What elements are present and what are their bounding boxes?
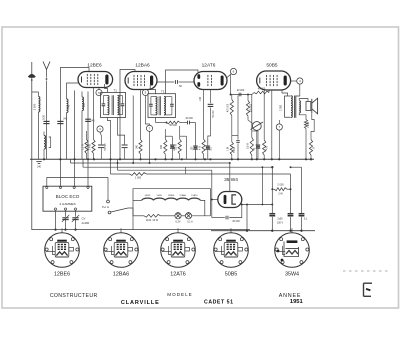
wire 35W4 out bbox=[241, 204, 273, 206]
wire bus4 bbox=[118, 159, 212, 170]
pin 50B5 4 bbox=[291, 78, 303, 96]
resistor R4b bbox=[198, 139, 205, 159]
svg-text:2 W: 2 W bbox=[278, 193, 283, 196]
speaker LS1 bbox=[306, 98, 318, 114]
capacitor C5 AVC bbox=[180, 117, 196, 125]
capacitor C6 bbox=[170, 136, 176, 159]
svg-text:1,2 M: 1,2 M bbox=[81, 144, 84, 150]
svg-text:743: 743 bbox=[67, 104, 71, 109]
wire S1 right bbox=[128, 208, 133, 216]
tube 12AT6 bbox=[194, 63, 227, 90]
wire drop 247 bbox=[246, 205, 248, 231]
capacitor C4 bbox=[98, 133, 107, 160]
socket 12BA6 bbox=[104, 228, 139, 277]
resistor R9 bbox=[309, 113, 315, 160]
capacitor C7 coupling bbox=[157, 80, 194, 88]
svg-text:2 000: 2 000 bbox=[279, 104, 282, 111]
svg-text:4 GAMMES: 4 GAMMES bbox=[59, 202, 75, 206]
svg-text:300: 300 bbox=[160, 144, 163, 149]
svg-text:2 000: 2 000 bbox=[277, 184, 284, 187]
wire T2 to 12AT6 top bbox=[166, 70, 199, 94]
wire bus2 bbox=[71, 159, 230, 163]
wire heater drop bbox=[132, 216, 134, 230]
wire bus3 jog bbox=[185, 167, 187, 174]
svg-text:35W4: 35W4 bbox=[145, 195, 151, 197]
svg-text:0,1 A: 0,1 A bbox=[187, 221, 193, 224]
svg-text:12BA6: 12BA6 bbox=[113, 272, 129, 278]
svg-text:470 000: 470 000 bbox=[228, 103, 230, 112]
svg-text:CONSTRUCTEUR: CONSTRUCTEUR bbox=[50, 293, 98, 299]
socket 12AT6 bbox=[161, 228, 196, 277]
wire AVC down bbox=[192, 123, 198, 160]
capacitor C4b bbox=[122, 145, 128, 159]
capacitor C13 bbox=[288, 214, 294, 231]
heater chain bbox=[133, 198, 205, 216]
variable capacitor CV2 bbox=[72, 210, 90, 231]
svg-text:50B5: 50B5 bbox=[225, 272, 238, 278]
svg-text:2x490: 2x490 bbox=[82, 221, 90, 225]
svg-text:12BA6: 12BA6 bbox=[179, 194, 186, 197]
wire 50B5 g1 bbox=[251, 95, 253, 138]
svg-text:50B5: 50B5 bbox=[266, 63, 278, 69]
wire CV drop1 bbox=[54, 210, 56, 231]
resistor R10 line bbox=[111, 159, 291, 179]
svg-text:MODELE: MODELE bbox=[167, 292, 192, 297]
svg-text:50 000: 50 000 bbox=[105, 143, 107, 151]
resistor R5b grid stopper bbox=[252, 87, 269, 94]
bus bottom left bbox=[32, 229, 251, 231]
coil L3 bbox=[82, 92, 86, 160]
wire BLOC pin1 bbox=[47, 178, 108, 188]
capacitor C3 bbox=[85, 92, 95, 188]
pin 12BA6 7 bbox=[146, 96, 153, 164]
capacitor C2 bbox=[57, 118, 68, 124]
wire 12BE6 anode bbox=[105, 84, 108, 93]
svg-text:150 V: 150 V bbox=[277, 222, 284, 225]
resistor R1 bbox=[88, 140, 95, 160]
svg-text:4 M: 4 M bbox=[198, 146, 201, 150]
wire 12BE6 cathode bbox=[93, 88, 95, 140]
resistor R3 bbox=[160, 129, 172, 159]
wire 35W4 left bbox=[211, 199, 218, 201]
svg-text:12AT6: 12AT6 bbox=[191, 194, 198, 197]
wire 12BA6 screen bbox=[132, 96, 134, 164]
resistor R2 AVC bbox=[156, 118, 181, 128]
transformer T1 bbox=[101, 88, 126, 117]
wire speaker top bbox=[299, 99, 308, 102]
wire 35W4 left drop bbox=[211, 170, 213, 217]
svg-text:CADET 51: CADET 51 bbox=[204, 299, 233, 305]
label 1951 bbox=[290, 299, 304, 305]
capacitor C11 bbox=[212, 205, 242, 223]
svg-text:470: 470 bbox=[265, 145, 268, 150]
svg-text:1 200: 1 200 bbox=[307, 121, 310, 128]
svg-text:T1: T1 bbox=[114, 88, 118, 92]
bus bottom right bbox=[211, 230, 315, 232]
svg-text:12AT6: 12AT6 bbox=[170, 272, 185, 278]
antenna ANT1 bbox=[28, 62, 36, 230]
svg-text:6,3V: 6,3V bbox=[176, 221, 181, 224]
tube 50B5 bbox=[257, 63, 291, 90]
svg-text:12BE6: 12BE6 bbox=[87, 63, 102, 69]
svg-text:240: 240 bbox=[63, 118, 68, 121]
lamp LP1 bbox=[175, 212, 181, 219]
wire 12BA6 cathode bbox=[140, 90, 142, 140]
tube 35W4 bbox=[218, 177, 242, 207]
pin 50B5 7 bbox=[276, 120, 282, 159]
capacitor C8 bbox=[206, 90, 216, 160]
svg-text:1 000: 1 000 bbox=[135, 177, 142, 180]
pin 12BE6 5 bbox=[96, 88, 102, 96]
resistor R12 bbox=[271, 184, 290, 196]
capacitor C10 bbox=[234, 96, 240, 160]
capacitor C1 bbox=[43, 115, 50, 160]
wire 50B5 screen bbox=[263, 90, 265, 140]
svg-text:50B5: 50B5 bbox=[157, 195, 163, 197]
svg-text:50 000: 50 000 bbox=[213, 110, 215, 118]
label modele bbox=[167, 292, 192, 297]
coil box BLOC ECO bbox=[43, 186, 92, 211]
svg-text:20 000: 20 000 bbox=[232, 220, 240, 223]
svg-text:12BE6: 12BE6 bbox=[54, 272, 70, 278]
antenna ANT2 bbox=[43, 62, 50, 119]
switch S1 bbox=[102, 200, 128, 214]
wire screen feed bbox=[262, 166, 264, 205]
label annee bbox=[279, 293, 302, 299]
wire HT vertical bbox=[271, 167, 273, 213]
wire HT3 vertical bbox=[301, 167, 303, 213]
wire 50B5 anode bbox=[282, 90, 288, 96]
resistor R1b bbox=[81, 131, 88, 159]
wire S1 up bbox=[107, 178, 109, 201]
resistor R7b bbox=[263, 140, 269, 159]
resistor R7 bbox=[247, 138, 254, 160]
wire 50B5 cathode bbox=[271, 90, 273, 159]
socket 35W4 bbox=[275, 228, 310, 277]
wire speaker bottom bbox=[299, 113, 306, 120]
svg-text:2,2: 2,2 bbox=[82, 103, 86, 107]
svg-text:12BA6: 12BA6 bbox=[135, 63, 150, 69]
pin 12BA6 5 bbox=[142, 89, 148, 95]
capacitor C10b bbox=[252, 131, 260, 159]
svg-text:1100. 10 W: 1100. 10 W bbox=[146, 219, 159, 222]
resistor R8 bbox=[304, 120, 310, 160]
junction dots bus1 bbox=[43, 158, 307, 160]
wire 35W4 anode drop bbox=[229, 163, 231, 192]
coil L4 bbox=[44, 132, 51, 160]
resistor R11 bbox=[133, 214, 175, 221]
svg-text:20 000: 20 000 bbox=[237, 89, 245, 92]
capacitor C9 bbox=[237, 89, 245, 96]
transformer T2 bbox=[148, 90, 176, 118]
wire T1 secondary bbox=[108, 118, 125, 160]
svg-text:0,5 M: 0,5 M bbox=[247, 143, 250, 149]
pin 12BE6 3 bbox=[97, 126, 103, 132]
lamp LP2 bbox=[181, 212, 210, 219]
resistor R5 bbox=[228, 95, 239, 143]
label cadet 51 bbox=[204, 299, 233, 305]
svg-text:5/30: 5/30 bbox=[43, 115, 46, 120]
socket 12BE6 bbox=[45, 228, 80, 277]
pin 12AT6 6 bbox=[227, 68, 237, 77]
wire grid 50B5 line bbox=[230, 75, 252, 96]
logo bbox=[364, 283, 373, 296]
coil L2 bbox=[67, 95, 71, 160]
socket 50B5 bbox=[214, 228, 249, 277]
capacitor C14 bbox=[299, 214, 308, 231]
dotted guide bbox=[343, 270, 391, 272]
wire 12BE6 grid top bbox=[60, 68, 89, 188]
tube 12BA6 bbox=[125, 63, 157, 90]
capacitor C12 bbox=[269, 214, 283, 231]
svg-text:50 000: 50 000 bbox=[169, 124, 177, 127]
svg-text:1951: 1951 bbox=[290, 299, 304, 305]
wire step bbox=[290, 166, 302, 168]
resistor R4 bbox=[175, 126, 187, 159]
svg-text:CLARVILLE: CLARVILLE bbox=[121, 300, 160, 306]
svg-text:2 500: 2 500 bbox=[32, 103, 36, 110]
resistor R6 volume bbox=[246, 95, 252, 117]
lamp labels bbox=[176, 221, 194, 224]
wire 12BA6 anode bbox=[150, 85, 155, 94]
bus chassis bbox=[30, 158, 314, 160]
wire HT2 vertical bbox=[290, 174, 292, 213]
svg-text:BLOC ECO: BLOC ECO bbox=[56, 194, 80, 199]
svg-text:1 M: 1 M bbox=[228, 147, 230, 151]
resistor R1c bbox=[136, 140, 142, 160]
wire 12BE6 g3 bbox=[67, 83, 79, 95]
label constructeur bbox=[50, 293, 98, 299]
svg-text:0,5 M: 0,5 M bbox=[175, 144, 178, 150]
svg-text:100: 100 bbox=[199, 96, 202, 101]
svg-text:10 000: 10 000 bbox=[185, 117, 193, 120]
wire 12AT6 diode bbox=[199, 90, 204, 140]
svg-text:T2: T2 bbox=[161, 90, 165, 94]
svg-text:240: 240 bbox=[90, 119, 95, 122]
svg-text:5 000: 5 000 bbox=[234, 146, 236, 152]
wire osc anode bbox=[74, 91, 76, 188]
heater labels bbox=[145, 194, 199, 197]
tube 12BE6 bbox=[78, 63, 113, 88]
wire bus3 bbox=[83, 159, 273, 168]
variable capacitor CV1 bbox=[62, 210, 69, 231]
junction dots bus2 bbox=[117, 162, 231, 164]
coil L1 bbox=[32, 92, 40, 159]
wire 12BA6 grid top bbox=[120, 70, 135, 160]
svg-text:35W4: 35W4 bbox=[285, 272, 299, 278]
svg-text:12BE6: 12BE6 bbox=[168, 195, 175, 197]
svg-text:35 W4: 35 W4 bbox=[224, 177, 238, 183]
transformer T3 bbox=[279, 96, 300, 118]
svg-text:P+I G: P+I G bbox=[102, 205, 109, 209]
potentiometer P1 bbox=[248, 116, 263, 159]
resistor R5c bbox=[228, 142, 234, 159]
label clarville bbox=[121, 300, 160, 306]
wire heater frame bbox=[133, 189, 211, 216]
svg-text:2 400: 2 400 bbox=[88, 143, 91, 150]
svg-text:12AT6: 12AT6 bbox=[202, 63, 216, 69]
svg-text:2x50: 2x50 bbox=[277, 217, 283, 220]
ground marker bbox=[36, 162, 41, 169]
